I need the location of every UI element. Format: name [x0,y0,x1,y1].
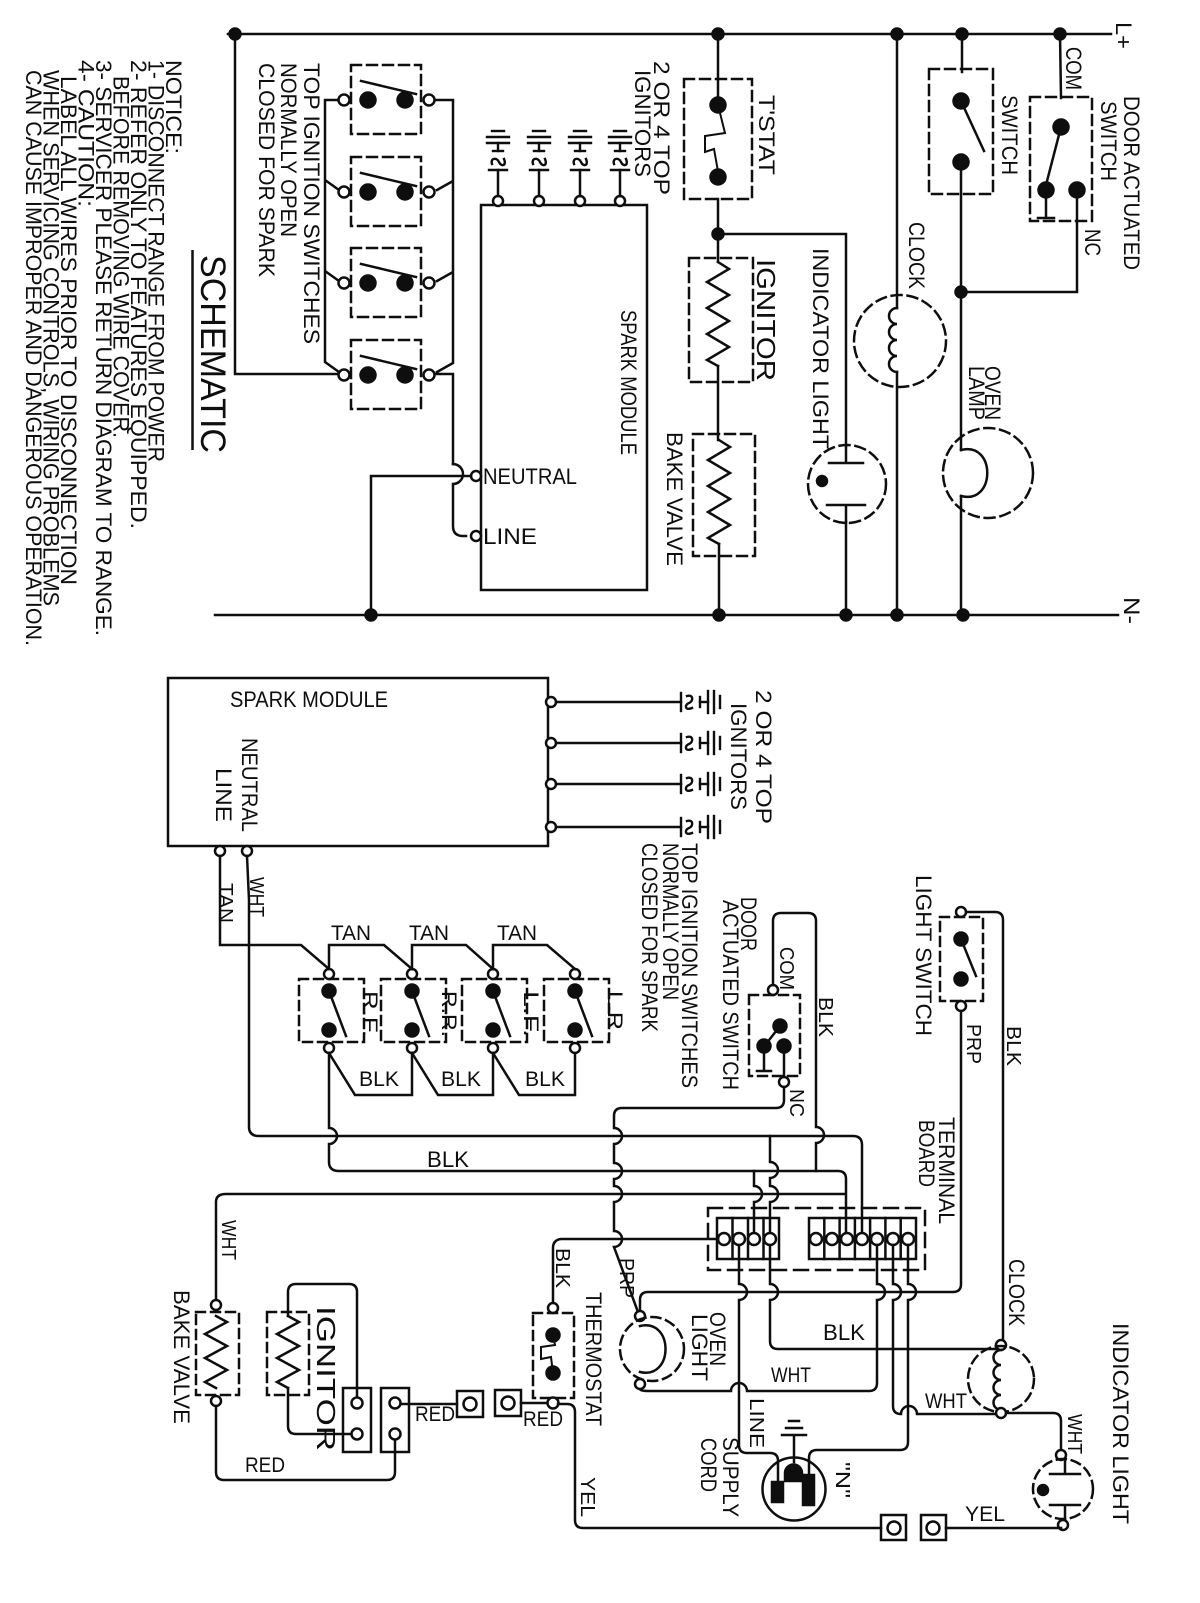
indicator light circle (top) [808,445,886,523]
wire from terminal 7R to supply plug right prong [809,1245,916,1474]
svg-text:2 OR 4 TOP: 2 OR 4 TOP [751,690,776,824]
burner switch L.F. box [462,979,527,1042]
burner switch R.R. box [381,979,446,1042]
svg-text:BLK: BLK [441,1068,481,1091]
wire WHT clock bottom to indicator light [1006,1413,1061,1450]
svg-text:TAN: TAN [409,922,449,945]
door actuated switch COM contact [1054,120,1069,135]
wire bake valve to N- [718,544,721,615]
indicator light dot (top) [817,476,827,486]
thermostat blade hook (bottom) [541,1335,555,1373]
connector block B [381,1388,409,1452]
door actuated switch box (bottom) [749,995,800,1076]
bake valve resistor zigzag (top) [708,440,730,544]
oven ignitor box (bottom) [267,1312,309,1395]
wire from terminal 5R to oven light bottom [640,1245,885,1391]
wire TAN jumper 3 [493,945,575,969]
svg-text:CLOCK: CLOCK [904,222,929,289]
ignitor resistor box (top) [689,258,753,382]
junction dot on N- at oven lamp [958,610,969,621]
top ignition switch 4 box [351,340,421,409]
svg-text:NC: NC [785,1089,807,1117]
svg-text:WHT: WHT [1063,1414,1085,1454]
spark module right terminal 4 [546,822,556,832]
door actuated switch contacts (bottom) [774,1020,787,1033]
wire BLK from light switch to clock [966,912,1003,1340]
oven light circle [620,1317,684,1381]
SCHEMATIC underline [191,250,194,450]
junction dot on L+ at clock [892,29,903,40]
svg-text:THERMOSTAT: THERMOSTAT [581,1292,606,1426]
indicator light electrodes (bottom) [1050,1460,1080,1520]
ignitor electrode 1 (bottom) [681,691,720,713]
burner switch R.F. blade [329,991,346,1036]
svg-text:BAKE VALVE: BAKE VALVE [662,432,687,566]
svg-text:PRP: PRP [615,1258,637,1298]
thermostat T'STAT feed wire [717,34,720,98]
svg-text:YEL: YEL [965,1503,1005,1526]
wire indicator light to N- [845,522,848,615]
wire WHT from NEUTRAL down [247,856,862,1233]
LINE terminal of spark module [471,531,481,541]
svg-text:N-: N- [1119,597,1144,624]
YEL terminal square 1 [881,1515,906,1540]
svg-text:IGNITORS: IGNITORS [630,70,655,177]
svg-text:L.F.: L.F. [519,991,542,1037]
wire L+ feed to ignition switch chain [235,34,339,374]
oven light bottom terminal [635,1379,645,1389]
spark module right terminal 2 [546,738,556,748]
spark module top terminal 1 [493,196,503,206]
terminal board outline [708,1208,925,1270]
thermostat bottom terminal [548,1398,559,1409]
door actuated switch blade [1046,127,1061,185]
wire ignitor to bake valve [717,366,720,440]
light switch bottom terminal [956,1001,966,1011]
junction dot on L+ at T'STAT [713,29,724,40]
ignitor electrode 4 (top) [609,131,631,170]
top ignition switch 3 blade [361,264,416,277]
top ignition switch 4 blade [361,356,416,369]
light switch blade [961,939,976,976]
wire BLK jumper 1 [329,1053,412,1095]
door actuated switch NO stub (bottom) [757,1053,771,1071]
svg-text:BLK: BLK [814,997,836,1038]
quick-connect plug square A (RED) [495,1390,521,1416]
svg-text:COM: COM [1061,47,1086,90]
door actuated switch blade (bottom) [766,1026,780,1044]
terminal board left block [717,1218,779,1259]
wire ignitor bottom to block A [288,1388,351,1434]
rail L+ [228,33,1111,36]
burner switch R.F. box [299,979,364,1042]
burner switch R.R. contacts [406,985,419,998]
oven lamp filament [961,449,987,497]
svg-text:CLOSED FOR SPARK: CLOSED FOR SPARK [637,843,662,1032]
oven light filament [640,1325,666,1372]
wire hop over neutral then to LINE pin [453,464,466,536]
junction dot on L+ at oven switch [957,29,968,40]
svg-text:NC: NC [1080,229,1105,256]
burner switch L.F. terminals [488,969,498,979]
light switch contacts [955,933,968,946]
svg-text:TAN: TAN [331,922,371,945]
indicator light electrodes (top) [827,446,865,522]
clock circle (top) [854,295,946,387]
svg-text:RED: RED [245,1454,285,1477]
svg-text:BAKE VALVE: BAKE VALVE [169,1290,194,1424]
wire TAN from LINE to switch R.F. [220,856,329,969]
spark module LINE terminal (bottom) [215,846,225,856]
wire BLK jumper 3 [493,1053,575,1095]
bake valve zigzag (bottom) [205,1316,227,1388]
terminal board right circles [810,1233,822,1245]
wire BLK terminal 1L to thermostat [553,1239,718,1303]
clock coil (top) [889,308,897,372]
bake valve box (top) [693,434,755,556]
wire right bus of ignition switches [434,100,453,464]
svg-text:CORD: CORD [696,1438,721,1492]
top ignition switch 3 box [351,248,421,317]
burner switch L.R. terminals [570,969,580,979]
terminal board right block [809,1218,916,1259]
svg-text:LIGHT: LIGHT [687,1314,712,1381]
ignitor electrode 2 (bottom) [681,732,720,754]
svg-text:RED: RED [523,1408,563,1431]
wire T'STAT to junction [717,199,720,262]
svg-text:ACTUATED SWITCH: ACTUATED SWITCH [718,900,743,1090]
spark module NEUTRAL terminal (bottom) [242,846,252,856]
svg-text:R.R.: R.R. [437,991,460,1037]
wire BLK branch to terminal 3L [754,1171,762,1233]
wire junction to indicator light [718,234,846,446]
junction dot on N- at indicator light [841,610,852,621]
svg-text:IGNITOR: IGNITOR [311,1306,341,1451]
light switch box [940,917,983,1001]
wire BLK from terminal 4L to clock top [770,1245,996,1349]
svg-text:SPARK MODULE: SPARK MODULE [616,310,641,455]
top ignition switch 1 blade [361,81,416,94]
wire RED plug B to block B [400,1403,457,1406]
svg-text:BLK: BLK [427,1147,469,1172]
spark module box (top) [481,205,647,590]
spark module top terminal 3 [575,196,585,206]
door actuated switch NC terminal (bottom) [783,1053,786,1077]
NEUTRAL terminal of spark module [471,471,481,481]
spark module top terminal 2 [534,196,544,206]
door actuated switch (bottom) COM terminal [768,985,778,995]
wire TAN jumper 2 [412,945,493,969]
supply plug right prong [803,1475,814,1505]
clock coil (bottom) [994,1350,1001,1410]
svg-text:WHT: WHT [217,1220,239,1260]
junction dot below T'STAT [713,229,724,240]
oven light top terminal [635,1311,645,1321]
door actuated switch lower contacts [1039,183,1054,198]
svg-text:LINE: LINE [745,1398,767,1448]
top ignition switch 1 box [351,65,421,134]
wire YEL thermostat down and across [558,1404,881,1528]
svg-text:TOP IGNITION SWITCHES: TOP IGNITION SWITCHES [299,63,324,344]
burner switch R.R. blade [412,991,429,1036]
svg-text:TAN: TAN [497,922,537,945]
ignitor electrode 3 (bottom) [681,773,720,795]
bake valve bottom terminal [211,1396,221,1406]
supply plug ground prong [785,1465,802,1482]
wire oven lamp to N- [960,496,963,615]
svg-text:T'STAT: T'STAT [754,95,779,175]
svg-text:WHT: WHT [245,877,267,917]
indicator light bottom terminal [1058,1520,1068,1530]
thermostat contacts (bottom) [547,1329,560,1342]
svg-text:IGNITOR: IGNITOR [751,259,781,381]
junction dot switch/NC/lamp [956,287,967,298]
thermostat T'STAT contacts [711,98,726,113]
burner switch L.R. blade [575,991,592,1036]
wire oven switch to junction [960,169,963,292]
wire clock column [896,34,899,308]
svg-text:LINE: LINE [211,768,236,822]
light switch top terminal [956,907,966,917]
ignitor electrode 2 (top) [528,131,550,170]
wire YEL indicator to squares [946,1527,1061,1530]
svg-text:BOARD: BOARD [914,1120,939,1187]
thermostat T'STAT blade with hook [705,105,725,177]
wire door switch feed [1060,34,1061,98]
svg-text:CLOSED FOR SPARK: CLOSED FOR SPARK [254,63,279,277]
wire RED thermostat to plug connector [521,1402,547,1405]
top ignition switch 2 blade [361,173,416,186]
svg-text:IGNITORS: IGNITORS [726,703,751,810]
wire WHT bake-valve bus [216,1194,844,1300]
rail N- [215,614,1118,617]
svg-text:RED: RED [415,1403,455,1426]
svg-text:BLK: BLK [1002,1026,1024,1067]
junction dot on N- at bake valve [714,610,725,621]
wire TAN jumper 1 [329,945,412,969]
svg-text:SPARK MODULE: SPARK MODULE [230,687,388,712]
junction dot on N- at clock [892,610,903,621]
terminal board left circles [718,1233,730,1245]
junction dot on L+ at door switch [1055,29,1066,40]
svg-text:INDICATOR LIGHT: INDICATOR LIGHT [808,248,833,449]
wire BLK jumper 2 [412,1053,493,1095]
svg-text:COM: COM [775,947,797,990]
svg-text:SWITCH: SWITCH [997,95,1022,175]
svg-text:TAN: TAN [214,883,236,923]
ignitor resistor zigzag (top) [707,262,729,366]
burner switch L.F. contacts [487,985,500,998]
top ignition switch 4 contacts [339,370,350,381]
wire clock to N- [896,372,899,615]
indicator light circle (bottom) [1033,1459,1093,1519]
junction dot on N- at neutral wire [366,610,377,621]
svg-text:SWITCH: SWITCH [1096,101,1121,181]
svg-text:BLK: BLK [823,1320,865,1345]
burner switch L.R. contacts [569,985,582,998]
bake valve top terminal (bottom) [211,1300,221,1310]
spark module box (bottom) [168,678,548,846]
indicator light dot (bottom) [1038,1485,1048,1495]
wire PRP from light switch to oven light [640,1011,961,1311]
svg-text:NEUTRAL: NEUTRAL [237,738,262,832]
svg-text:CAN CAUSE IMPROPER AND DANGERO: CAN CAUSE IMPROPER AND DANGEROUS OPERATI… [21,70,46,646]
thermostat T'STAT box [684,79,752,199]
wire NC to oven light (with hops) [614,1087,784,1312]
ignitor electrode 1 (top) [487,131,509,170]
svg-text:L.R.: L.R. [603,991,626,1037]
wire BLK from door COM to bus [773,913,824,1171]
svg-text:WHT: WHT [771,1364,811,1387]
wire BLK bus from R.F. down [329,1053,846,1233]
wire junction to oven lamp [960,292,963,450]
wire neutral from N- rail to NEUTRAL pin [371,476,471,615]
svg-text:LIGHT SWITCH: LIGHT SWITCH [911,875,936,1036]
thermostat box (bottom section) [533,1313,574,1398]
oven switch contacts [954,94,969,109]
wire ignitor top to block A [288,1284,357,1397]
svg-text:CLOCK: CLOCK [1004,1259,1029,1326]
svg-text:BLK: BLK [551,1248,573,1289]
burner switch R.F. contacts [323,985,336,998]
oven lamp circle [943,428,1033,518]
top ignition switch 3 contacts [339,278,350,289]
door actuated switch box (top) [1030,97,1092,221]
svg-text:PRP: PRP [962,1024,984,1064]
quick-connect plug square B (RED) [457,1391,483,1417]
YEL terminal square 2 [921,1515,946,1540]
svg-text:L+: L+ [1111,22,1136,49]
junction dot on L+ at switch-chain feed [230,29,241,40]
wire WHT branch to terminal 4L [770,1136,778,1233]
top ignition switch 2 box [351,157,421,226]
svg-text:BLK: BLK [525,1068,565,1091]
wire NC horizontal [961,197,1077,292]
supply cord plug circle [763,1458,826,1521]
svg-text:NEUTRAL: NEUTRAL [483,464,577,489]
burner switch R.F. terminals [324,969,334,979]
svg-text:R.F.: R.F. [358,991,381,1037]
top ignition switch 1 contacts [339,95,350,106]
ignitor electrode 4 (bottom) [681,816,720,838]
wire left bus of ignition switches [325,100,339,372]
burner switch L.F. blade [493,991,510,1036]
ignitor electrode 3 (top) [569,131,591,170]
burner switch R.R. terminals [407,969,417,979]
wire oven switch feed [961,34,964,72]
oven ignitor zigzag (bottom) [277,1316,299,1388]
svg-text:YEL: YEL [576,1477,598,1517]
top ignition switch 2 contacts [339,187,350,198]
wire LINE from terminal 2L to supply plug [739,1245,778,1481]
wire WHT from terminal 6R to clock bottom [893,1245,996,1414]
supply plug left prong [772,1482,783,1502]
svg-text:BLK: BLK [359,1068,399,1091]
door actuated switch NO stub [1038,197,1054,218]
clock bottom terminal (bottom) [996,1408,1006,1418]
oven switch blade [961,101,984,151]
supply plug ground symbol [782,1421,806,1462]
indicator light top terminal (bottom) [1056,1450,1066,1460]
svg-text:DOOR ACTUATED: DOOR ACTUATED [1119,96,1144,270]
bake valve box (bottom) [196,1312,239,1395]
burner switch L.R. box [544,979,609,1042]
svg-text:LAMP: LAMP [964,366,989,420]
svg-text:SCHEMATIC: SCHEMATIC [193,255,232,453]
svg-text:LINE: LINE [483,524,537,549]
svg-text:WHT: WHT [925,1390,967,1413]
clock circle (bottom) [968,1346,1034,1412]
connector block A [343,1388,371,1452]
thermostat top terminal (bottom section) [548,1303,558,1313]
spark module top terminal 4 [615,196,625,206]
svg-text:"N": "N" [831,1462,853,1498]
spark module right terminal 3 [546,779,556,789]
spark module right terminal 1 [546,697,556,707]
oven switch box (top) [929,69,993,194]
svg-text:INDICATOR LIGHT: INDICATOR LIGHT [1108,1323,1133,1524]
clock top terminal (bottom) [996,1340,1006,1350]
wire RED bake valve to block B [216,1406,395,1480]
